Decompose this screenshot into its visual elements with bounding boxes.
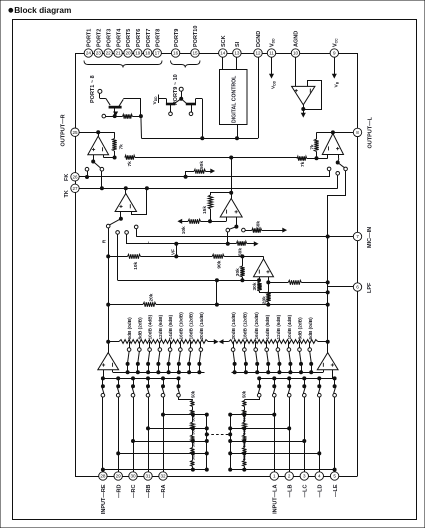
- svg-text:VCC: VCC: [333, 38, 339, 47]
- svg-text:6dB (0dB): 6dB (0dB): [127, 317, 132, 340]
- pin 19 (PORT6) top pin circle and label: [134, 29, 142, 58]
- svg-text:PORT1 ~ 8: PORT1 ~ 8: [90, 75, 96, 103]
- resistor R9 15k feedback: [202, 193, 231, 223]
- svg-text:PORT9: PORT9: [174, 29, 180, 47]
- resistor R16 20k (horizontal): [143, 293, 156, 306]
- pin 2 bottom pin circle and label: [285, 472, 293, 498]
- wire VF row: [108, 249, 263, 258]
- svg-text:VDD: VDD: [152, 96, 158, 105]
- wire SCK to U1: [222, 57, 224, 69]
- pin 29 bottom pin circle and label: [114, 472, 122, 498]
- svg-text:20k: 20k: [149, 293, 155, 301]
- svg-text:13: 13: [234, 51, 240, 56]
- pin 31 bottom pin circle and label: [144, 472, 152, 498]
- svg-text:SCK: SCK: [221, 35, 227, 47]
- svg-text:7k: 7k: [127, 161, 133, 167]
- wire column LB to pin 2: [288, 397, 291, 472]
- op-amp U6 mic amp: [220, 158, 242, 218]
- svg-text:50k: 50k: [199, 161, 205, 169]
- svg-text:PORT7: PORT7: [146, 29, 152, 47]
- svg-text:11: 11: [269, 51, 274, 56]
- switch column 3 (L input select): [303, 377, 307, 397]
- wire column RC to pin 30: [132, 397, 135, 472]
- pin 7 MIC-IN: [353, 227, 373, 248]
- transistor Q1 (port output NPN): [98, 89, 141, 116]
- switch column 3 (R input select): [131, 377, 135, 397]
- wire stack taps L: [229, 413, 335, 471]
- label/tap 18dB (12dB) (R ladder tap 7): [188, 312, 194, 374]
- wire column LC to pin 3: [303, 397, 306, 472]
- svg-text:—RA: —RA: [161, 484, 167, 497]
- wire U4 minus input: [317, 155, 328, 159]
- svg-text:9: 9: [333, 51, 336, 56]
- pin 28 bottom pin circle and label: [99, 472, 107, 514]
- switch S1 at U3 plus input: [85, 155, 104, 171]
- svg-text:INPUT—RE: INPUT—RE: [101, 484, 107, 514]
- svg-text:14: 14: [220, 51, 226, 56]
- pin 8 OUTPUT-L: [353, 116, 373, 148]
- pin 32 bottom pin circle and label: [159, 472, 167, 498]
- svg-text:28: 28: [100, 474, 106, 479]
- wire column LE to pin 5: [333, 397, 336, 472]
- wire TK row (pin 26): [79, 175, 329, 178]
- svg-text:6dB (0dB): 6dB (0dB): [308, 317, 313, 340]
- wire S2 contact drops: [328, 171, 346, 196]
- svg-text:18dB (12dB): 18dB (12dB): [189, 312, 194, 340]
- svg-text:PORT6: PORT6: [136, 29, 142, 47]
- svg-text:—LD: —LD: [318, 484, 324, 497]
- resistor R8 50k on row B: [236, 241, 257, 256]
- svg-text:—LC: —LC: [303, 484, 309, 497]
- svg-text:PORT1: PORT1: [87, 29, 93, 47]
- svg-text:20dB (14dB): 20dB (14dB): [199, 312, 204, 340]
- op-amp U3 OUTPUT-R amp: [79, 131, 114, 155]
- svg-text:90k: 90k: [217, 260, 223, 268]
- wire U8 feedback bus: [113, 370, 205, 373]
- wire column LA to pin 1: [273, 397, 276, 472]
- label/tap 6dB (0dB) (L ladder tap 8): [308, 317, 313, 374]
- svg-text:8dB (2dB): 8dB (2dB): [298, 317, 303, 340]
- resistor ladder L-channel chain: [220, 340, 328, 344]
- wire FK row (pin 27): [79, 187, 338, 190]
- svg-text:17: 17: [155, 51, 161, 56]
- pin 22 (PORT3) top pin circle and label: [104, 29, 112, 58]
- resistor R-emitter with open terminal: [102, 114, 142, 118]
- resistor stack R-channel 50k x6: [190, 390, 195, 469]
- resistor ladder R-channel chain: [108, 340, 217, 344]
- switch S4 at U6 plus input: [226, 217, 245, 232]
- label/tap 20dB (14dB) (R ladder tap 8): [198, 312, 204, 374]
- resistor R11 50k to MIC arrow: [245, 221, 286, 233]
- op-amp U8 R-channel ladder amp: [98, 342, 119, 370]
- svg-text:50k: 50k: [238, 248, 244, 256]
- svg-text:3: 3: [303, 474, 306, 479]
- svg-text:10dB (4dB): 10dB (4dB): [287, 314, 292, 339]
- label/tap 8dB (2dB) (L ladder tap 7): [298, 317, 303, 374]
- wire tap down to 20k bus: [215, 280, 218, 306]
- svg-text:—LB: —LB: [287, 484, 293, 497]
- svg-text:18: 18: [145, 51, 151, 56]
- label/tap 16dB (10dB) (L ladder tap 3): [254, 312, 259, 374]
- wire column RB to pin 31: [147, 397, 150, 472]
- switch S2 at U4 plus input: [327, 155, 347, 176]
- svg-text:20dB (14dB): 20dB (14dB): [231, 312, 236, 340]
- label/tap 12dB (6dB) (L ladder tap 5): [276, 314, 281, 373]
- wire dashed center link: [207, 433, 232, 436]
- brace PORT1-8 group: [84, 61, 162, 104]
- svg-text:29: 29: [116, 474, 122, 479]
- wire PMOS drain to DGND rail: [201, 99, 204, 140]
- svg-text:30k: 30k: [252, 282, 258, 290]
- svg-text:4: 4: [318, 474, 321, 479]
- svg-text:INPUT—LA: INPUT—LA: [273, 484, 279, 513]
- svg-text:19: 19: [135, 51, 141, 56]
- svg-text:16dB (10dB): 16dB (10dB): [178, 312, 183, 340]
- svg-text:20k: 20k: [262, 296, 268, 304]
- svg-text:6: 6: [356, 285, 359, 290]
- svg-text:PORT8: PORT8: [155, 29, 161, 47]
- resistor R13 30k (vertical, minus to bus): [252, 282, 329, 294]
- wire U1 bottom to DGND rail: [236, 125, 239, 140]
- resistor R3 7k feedback (vertical): [310, 132, 319, 159]
- resistor R6 10k on VF row: [128, 254, 141, 269]
- svg-text:10dB (4dB): 10dB (4dB): [148, 314, 153, 339]
- svg-text:VF: VF: [170, 249, 175, 255]
- wire row D1 minus input: [118, 234, 261, 282]
- svg-text:7k: 7k: [118, 144, 124, 150]
- wire right collector vertical R: [205, 415, 208, 470]
- wire left collector vertical L: [230, 415, 232, 470]
- svg-text:—RC: —RC: [131, 484, 137, 497]
- svg-text:16dB (10dB): 16dB (10dB): [254, 312, 259, 340]
- pin 26 TK: [71, 173, 79, 181]
- transistor Q2 (port FET pair): [166, 87, 202, 115]
- wire SI to U1: [236, 57, 238, 69]
- resistor R1 7k feedback (vertical): [112, 132, 124, 159]
- svg-text:TK: TK: [64, 190, 70, 197]
- pin 15 (PORT10) top pin circle and label: [191, 26, 199, 58]
- wire U3 minus input to bus: [104, 155, 115, 158]
- svg-text:22: 22: [106, 51, 112, 56]
- VDD arrow under pin 11: [270, 57, 277, 89]
- label/tap 12dB (6dB) (R ladder tap 4): [157, 314, 163, 373]
- pin 21 (PORT4) top pin circle and label: [114, 28, 122, 57]
- svg-text:8: 8: [356, 130, 359, 135]
- svg-text:16: 16: [173, 51, 179, 56]
- switch column 5 (L input select): [273, 377, 277, 397]
- switch column 1 (L input select): [333, 377, 337, 397]
- switch column 1 (R input select): [101, 377, 105, 397]
- label/tap 8dB (2dB) (R ladder tap 2): [136, 317, 142, 374]
- svg-text:—RD: —RD: [116, 484, 122, 497]
- svg-text:OUTPUT—R: OUTPUT—R: [61, 114, 67, 146]
- resistor R14 (horizontal to bus): [288, 280, 301, 284]
- switch column 2 (L input select): [318, 377, 322, 397]
- svg-text:DGND: DGND: [256, 31, 262, 47]
- resistor stack L-channel 50k x6: [242, 390, 247, 469]
- wire internal right bus: [326, 195, 329, 343]
- wire column RE to pin 28: [101, 397, 104, 472]
- wire U9 plus bus: [259, 370, 334, 379]
- pin 12 (DGND) top pin circle and label: [254, 31, 262, 57]
- svg-text:MIC—IN: MIC—IN: [367, 227, 373, 248]
- pin 16 (PORT9) top pin circle and label: [171, 29, 179, 58]
- svg-text:14dB (8dB): 14dB (8dB): [168, 314, 173, 339]
- pin 24 (PORT1) top pin circle and label: [84, 29, 92, 58]
- VB arrow under pin 9: [333, 57, 340, 87]
- svg-text:50k: 50k: [242, 390, 247, 398]
- pin 30 bottom pin circle and label: [129, 472, 137, 498]
- svg-text:SI: SI: [235, 41, 241, 47]
- svg-text:2: 2: [288, 474, 291, 479]
- svg-text:—LE: —LE: [333, 484, 339, 497]
- op-amp U5: [115, 188, 146, 214]
- svg-text:DIGITAL CONTROL: DIGITAL CONTROL: [232, 75, 238, 123]
- label/tap 14dB (8dB) (R ladder tap 5): [167, 314, 173, 373]
- resistor R12 30k (vertical, from VF): [235, 256, 245, 280]
- wire column RD to pin 29: [117, 397, 120, 472]
- pin 14 (SCK) top pin circle and label: [219, 35, 227, 57]
- node R selector line: [102, 228, 110, 353]
- wire column 6 to stack top: [179, 397, 193, 400]
- svg-text:12dB (6dB): 12dB (6dB): [158, 314, 163, 339]
- label/tap 6dB (0dB) (R ladder tap 1): [126, 317, 132, 374]
- svg-text:27: 27: [72, 186, 78, 191]
- svg-text:31: 31: [145, 474, 151, 479]
- svg-text:50k: 50k: [190, 390, 195, 398]
- svg-text:PORT9 ~ 10: PORT9 ~ 10: [173, 74, 179, 105]
- pin 4 bottom pin circle and label: [315, 472, 323, 498]
- svg-text:50k: 50k: [255, 221, 261, 229]
- op-amp U2 AGND buffer: [292, 57, 322, 116]
- wire column RA to pin 32: [162, 397, 165, 472]
- resistor R15 20k (vertical): [262, 282, 271, 306]
- brace PORT9-10 group: [171, 61, 201, 106]
- svg-text:PORT2: PORT2: [97, 29, 103, 47]
- svg-text:R: R: [102, 239, 108, 243]
- pin 11 (V) top pin circle and label: [267, 38, 275, 57]
- svg-text:23: 23: [96, 51, 102, 56]
- wire column 6L to stack top: [244, 397, 259, 400]
- switch column 2 (R input select): [116, 377, 120, 397]
- svg-text:15: 15: [192, 51, 198, 56]
- IC body outline (top/left/right/bottom edges): [75, 53, 358, 477]
- wire U8 plus bus: [103, 370, 178, 379]
- svg-text:7: 7: [356, 234, 359, 239]
- svg-text:32: 32: [160, 474, 166, 479]
- op-amp U7 LPF amp: [254, 256, 274, 276]
- VDD supply stub for port FETs: [152, 95, 167, 105]
- wire row B: [127, 232, 255, 256]
- svg-text:OUTPUT—L: OUTPUT—L: [367, 116, 373, 148]
- svg-text:10k: 10k: [133, 261, 139, 269]
- resistor R4 7k (horizontal): [297, 156, 317, 167]
- svg-text:LPF: LPF: [367, 282, 373, 293]
- op-amp U9 L-channel ladder amp: [317, 342, 338, 370]
- label/tap 18dB (12dB) (L ladder tap 2): [243, 312, 248, 374]
- svg-text:VDD: VDD: [270, 38, 276, 47]
- label/tap 16dB (10dB) (R ladder tap 6): [177, 312, 183, 374]
- pin 20 (PORT5) top pin circle and label: [124, 29, 132, 58]
- switch S3 at U5 plus input: [106, 212, 138, 235]
- svg-text:18dB (12dB): 18dB (12dB): [243, 312, 248, 340]
- wire main top bus: [135, 156, 297, 159]
- label/tap 20dB (14dB) (L ladder tap 1): [231, 312, 236, 374]
- pin 9 (V) top pin circle and label: [330, 38, 338, 57]
- resistor R5 50k stub off TK row: [186, 161, 215, 177]
- label/tap 14dB (8dB) (L ladder tap 4): [265, 314, 270, 373]
- svg-text:14dB (8dB): 14dB (8dB): [265, 314, 270, 339]
- svg-text:12dB (6dB): 12dB (6dB): [276, 314, 281, 339]
- svg-text:30: 30: [130, 474, 136, 479]
- pin 17 (PORT8) top pin circle and label: [153, 29, 161, 58]
- pin 10 (AGND) top pin circle and label: [291, 31, 299, 57]
- switch column 6 (R input select): [177, 377, 181, 397]
- block U1 DIGITAL CONTROL: [220, 70, 248, 125]
- pin 1 bottom pin circle and label: [270, 472, 278, 514]
- pin 25 OUTPUT-R: [61, 114, 80, 146]
- pin 23 (PORT2) top pin circle and label: [94, 29, 102, 58]
- svg-text:VDD: VDD: [270, 80, 276, 89]
- resistor R10 10k to arrow: [179, 217, 227, 234]
- resistor R7 90k on VF row: [212, 254, 224, 268]
- wire U9 feedback bus: [232, 370, 324, 373]
- pin 13 (SI) top pin circle and label: [233, 41, 241, 57]
- svg-text:PORT3: PORT3: [106, 29, 112, 47]
- label/tap 10dB (4dB) (R ladder tap 3): [147, 314, 153, 373]
- svg-text:AGND: AGND: [294, 31, 300, 47]
- svg-text:1: 1: [273, 474, 276, 479]
- wire row D2 plus input: [267, 277, 329, 284]
- wire MIC row to pin 7: [136, 235, 353, 238]
- svg-text:30k: 30k: [235, 268, 241, 276]
- svg-text:21: 21: [116, 51, 122, 56]
- wire column LD to pin 4: [318, 397, 321, 472]
- switch column 4 (L input select): [287, 377, 291, 397]
- svg-text:7k: 7k: [310, 144, 316, 150]
- svg-text:26: 26: [72, 174, 78, 179]
- svg-text:PORT10: PORT10: [193, 26, 199, 47]
- pin 27 FK: [64, 174, 79, 198]
- wire DGND rail: [141, 57, 259, 138]
- pin 6 LPF: [353, 282, 373, 293]
- svg-text:24: 24: [86, 51, 92, 56]
- svg-text:—RB: —RB: [146, 484, 152, 497]
- svg-text:8dB (2dB): 8dB (2dB): [137, 317, 142, 340]
- switch column 4 (R input select): [146, 377, 150, 397]
- svg-text:10: 10: [293, 51, 299, 56]
- pin 18 (PORT7) top pin circle and label: [144, 29, 152, 58]
- svg-text:PORT4: PORT4: [116, 28, 122, 47]
- svg-text:20: 20: [125, 51, 131, 56]
- op-amp U4 OUTPUT-L amp: [317, 131, 354, 155]
- wire S1 contacts down to TK/FK rows: [86, 171, 104, 190]
- node L wire to MIC row: [137, 229, 152, 245]
- svg-text:15k: 15k: [202, 206, 208, 214]
- wire LPF pin 6: [328, 286, 354, 288]
- svg-text:10k: 10k: [181, 226, 187, 234]
- label/tap 10dB (4dB) (L ladder tap 6): [287, 314, 292, 373]
- svg-text:FK: FK: [64, 174, 70, 181]
- svg-text:PORT5: PORT5: [126, 29, 132, 47]
- svg-text:7k: 7k: [300, 161, 306, 167]
- switch column 6 (L input select): [257, 377, 261, 397]
- pin 3 bottom pin circle and label: [300, 472, 308, 498]
- switch column 5 (R input select): [161, 377, 165, 397]
- wire 20k bus row: [108, 303, 329, 306]
- svg-text:Block diagram: Block diagram: [14, 5, 71, 15]
- svg-text:5: 5: [333, 474, 336, 479]
- wire stack taps R: [103, 413, 208, 471]
- pin 5 bottom pin circle and label: [330, 472, 338, 497]
- svg-text:12: 12: [255, 51, 261, 56]
- resistor R2 7k (horizontal): [125, 155, 135, 166]
- header: Block diagram title: [9, 5, 71, 15]
- svg-text:VB: VB: [334, 81, 340, 87]
- svg-text:25: 25: [72, 130, 78, 135]
